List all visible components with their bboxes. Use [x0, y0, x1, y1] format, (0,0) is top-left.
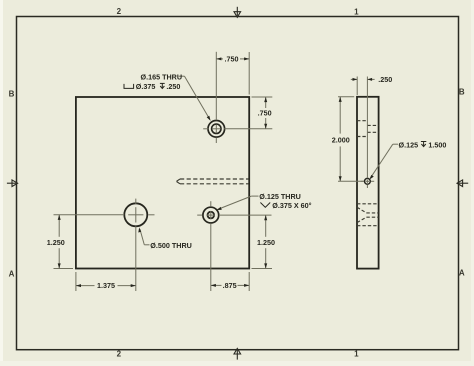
svg-text:1.375: 1.375 [97, 281, 115, 290]
dimension 1.250 right [219, 215, 272, 268]
svg-text:Ø.165 THRU: Ø.165 THRU [141, 72, 183, 81]
counterbore hole center mark [203, 125, 220, 144]
counterbore symbol [124, 84, 134, 89]
center marker arrow left [7, 180, 18, 187]
leader + note countersink hole [218, 196, 259, 209]
svg-text:1: 1 [354, 7, 359, 16]
dimension .750 top (ext+line) [216, 52, 249, 120]
svg-text:Ø.375 X 60°: Ø.375 X 60° [272, 201, 311, 210]
side view hidden lines big hole [357, 204, 379, 226]
big hole circle [124, 203, 147, 226]
svg-text:2.000: 2.000 [332, 136, 350, 145]
dimension 2.000 side [338, 97, 364, 182]
svg-text:1.500: 1.500 [428, 140, 446, 149]
depth symbol (side note) [421, 142, 426, 147]
side view hole center mark [361, 180, 375, 188]
svg-text:2: 2 [117, 7, 122, 16]
svg-text:Ø.125: Ø.125 [399, 140, 419, 149]
center marker arrow right [457, 180, 468, 187]
side view hidden lines counterbore [357, 121, 379, 137]
svg-text:Ø.375: Ø.375 [136, 82, 156, 91]
svg-text:.750: .750 [225, 55, 239, 64]
side view outline [357, 97, 379, 269]
countersink hole center mark [197, 201, 215, 219]
hidden hole lines (side-drilled hole) front view [176, 179, 248, 184]
dimension 1.250 left [54, 215, 125, 269]
countersink hole circles [203, 207, 219, 223]
center marker arrow top [234, 7, 241, 17]
counterbore hole (top) circles [208, 121, 225, 138]
leader + note big hole [140, 229, 150, 245]
leader + note counterbore hole [179, 76, 210, 119]
svg-text:.875: .875 [223, 281, 237, 290]
svg-text:.250: .250 [166, 82, 180, 91]
dimension .875 bottom [211, 223, 249, 291]
svg-text:B: B [459, 88, 465, 97]
svg-text:Ø.500 THRU: Ø.500 THRU [150, 241, 192, 250]
svg-text:B: B [9, 90, 15, 99]
big hole center mark [128, 199, 154, 223]
svg-text:1.250: 1.250 [257, 238, 275, 247]
depth symbol (note line2) [160, 83, 165, 88]
svg-text:A: A [459, 269, 465, 278]
svg-text:1: 1 [354, 350, 359, 359]
side view drilled hole circle [365, 178, 371, 184]
leader + note side drilled hole [370, 144, 398, 178]
dimension .250 side top [351, 77, 375, 179]
svg-text:.250: .250 [378, 75, 392, 84]
side view hidden lines countersink cone [357, 207, 379, 222]
front view plate outline [76, 97, 249, 269]
dimension 1.375 bottom [76, 226, 136, 291]
svg-text:.750: .750 [258, 109, 272, 118]
svg-text:2: 2 [117, 350, 122, 359]
dimension .750 right (ext+line) [224, 97, 272, 129]
svg-text:1.250: 1.250 [47, 238, 65, 247]
center marker arrow bottom [234, 348, 241, 359]
countersink symbol [260, 203, 270, 208]
svg-text:A: A [9, 270, 15, 279]
